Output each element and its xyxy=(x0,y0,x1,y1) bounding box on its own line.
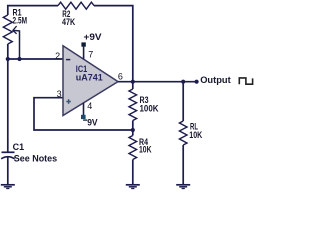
svg-text:3: 3 xyxy=(57,89,62,99)
power -9V terminal xyxy=(81,103,98,129)
wire output (pin 6) xyxy=(118,81,197,83)
wire RL to ground xyxy=(182,145,184,185)
potentiometer R1 wiper arrow xyxy=(13,26,20,59)
wire R2 to right rail down to output node xyxy=(94,6,133,82)
node junction output / RL column xyxy=(181,80,185,84)
resistor R4 10K xyxy=(129,136,152,160)
wire R3 to feedback node xyxy=(132,121,134,131)
svg-text:9V: 9V xyxy=(87,118,98,129)
non-inverting input plus marker xyxy=(66,99,70,103)
svg-text:47K: 47K xyxy=(62,17,76,27)
svg-text:C1: C1 xyxy=(13,142,25,152)
wire feedback node to R4 xyxy=(132,130,134,136)
ground under C1 xyxy=(1,185,15,189)
wire non-inverting input (pin 3) feedback loop xyxy=(34,98,133,130)
inverting input minus marker xyxy=(66,59,70,61)
node junction output / R3 column xyxy=(131,80,135,84)
node junction R3/R4/feedback xyxy=(131,128,135,132)
svg-text:uA741: uA741 xyxy=(76,72,103,82)
resistor RL 10K xyxy=(179,121,202,145)
capacitor C1 xyxy=(1,142,57,164)
wire output node to R3 xyxy=(132,82,134,89)
node output terminal dot xyxy=(195,80,199,84)
ground under RL xyxy=(176,185,190,189)
wire R4 to ground xyxy=(132,160,134,185)
wire RL column from output xyxy=(182,82,184,121)
svg-text:See Notes: See Notes xyxy=(14,154,58,165)
resistor R1 2.5M (potentiometer) xyxy=(3,8,27,45)
node junction wiper / pin2 wire xyxy=(17,57,21,61)
svg-text:2.5M: 2.5M xyxy=(13,16,28,26)
wire inverting input (pin 2) xyxy=(8,58,63,60)
square wave symbol xyxy=(239,78,252,84)
svg-text:+9V: +9V xyxy=(84,32,103,43)
svg-text:10K: 10K xyxy=(189,130,202,140)
svg-text:Output: Output xyxy=(200,75,231,86)
resistor R2 47K xyxy=(58,2,94,27)
node junction left rail / pin2 wire xyxy=(6,57,10,61)
svg-text:2: 2 xyxy=(55,51,60,61)
wire top-left to R2 and left rail corner xyxy=(8,6,58,15)
wire left rail R1 to C1 xyxy=(7,44,9,152)
svg-text:7: 7 xyxy=(88,50,93,60)
svg-text:10K: 10K xyxy=(139,145,152,155)
op-amp U1 IC1 uA741 xyxy=(63,46,118,116)
ground under R4 xyxy=(126,185,140,189)
resistor R3 100K xyxy=(129,89,159,121)
power +9V terminal xyxy=(81,32,102,59)
wire C1 to ground xyxy=(7,157,9,184)
svg-text:100K: 100K xyxy=(140,103,159,113)
svg-text:4: 4 xyxy=(87,101,92,111)
svg-text:6: 6 xyxy=(118,72,123,82)
